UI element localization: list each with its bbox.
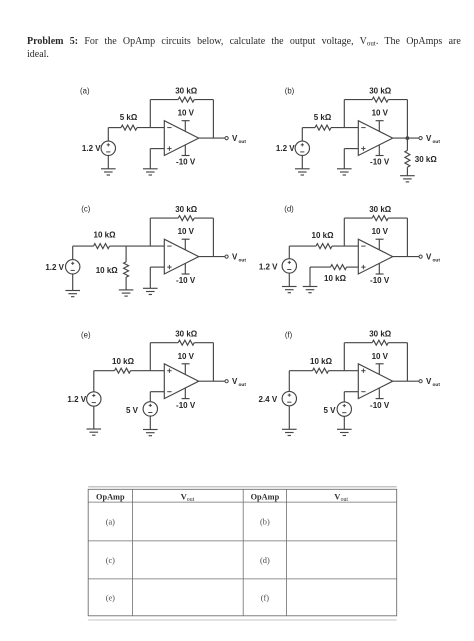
svg-text:1.2 V: 1.2 V [82,144,101,153]
svg-text:30 kΩ: 30 kΩ [175,86,198,95]
svg-text:-10 V: -10 V [370,276,390,285]
svg-text:5 V: 5 V [323,406,336,415]
svg-text:V: V [426,252,432,261]
svg-text:(b): (b) [260,518,270,527]
svg-text:5 kΩ: 5 kΩ [314,113,332,122]
svg-text:10 kΩ: 10 kΩ [324,274,347,283]
svg-text:-10 V: -10 V [370,401,390,410]
svg-text:10 V: 10 V [178,109,195,118]
svg-text:V: V [232,377,238,386]
svg-text:10 V: 10 V [178,227,195,236]
svg-text:(d): (d) [284,205,294,214]
svg-text:out: out [239,257,247,263]
svg-text:5 kΩ: 5 kΩ [120,113,138,122]
svg-text:10 V: 10 V [372,227,389,236]
svg-text:(f): (f) [261,594,270,603]
svg-text:(f): (f) [285,331,293,340]
svg-text:10 kΩ: 10 kΩ [310,357,333,366]
svg-text:-10 V: -10 V [176,158,196,167]
svg-text:(c): (c) [106,556,115,565]
svg-text:out: out [239,382,247,388]
svg-text:10 V: 10 V [178,352,195,361]
svg-text:V: V [232,134,238,143]
svg-text:OpAmp: OpAmp [251,492,280,501]
svg-text:out: out [341,497,349,503]
svg-text:out: out [433,257,441,263]
svg-text:30 kΩ: 30 kΩ [369,205,392,214]
svg-text:30 kΩ: 30 kΩ [415,155,438,164]
svg-text:out: out [239,139,247,145]
svg-text:2.4 V: 2.4 V [259,395,278,404]
svg-text:30 kΩ: 30 kΩ [369,86,392,95]
svg-text:10 V: 10 V [372,109,389,118]
svg-text:-10 V: -10 V [176,276,196,285]
svg-text:1.2 V: 1.2 V [45,263,64,272]
svg-text:30 kΩ: 30 kΩ [175,330,198,339]
svg-text:10 kΩ: 10 kΩ [96,266,119,275]
svg-text:V: V [232,252,238,261]
svg-text:30 kΩ: 30 kΩ [369,330,392,339]
svg-text:10 kΩ: 10 kΩ [312,231,335,240]
svg-text:10 V: 10 V [372,352,389,361]
svg-text:(c): (c) [81,205,90,214]
svg-text:(b): (b) [285,87,295,96]
svg-text:(d): (d) [260,556,270,565]
svg-text:1.2 V: 1.2 V [276,144,295,153]
svg-text:30 kΩ: 30 kΩ [175,205,198,214]
svg-text:1.2 V: 1.2 V [67,395,86,404]
svg-text:out: out [433,382,441,388]
svg-text:1.2 V: 1.2 V [259,263,278,272]
svg-text:OpAmp: OpAmp [96,492,125,501]
svg-text:10 kΩ: 10 kΩ [112,357,135,366]
svg-text:(e): (e) [106,594,115,603]
svg-text:V: V [426,134,432,143]
svg-text:10 kΩ: 10 kΩ [94,231,117,240]
svg-text:-10 V: -10 V [370,158,390,167]
svg-text:(a): (a) [106,518,115,527]
svg-text:(e): (e) [81,331,91,340]
svg-text:out: out [433,139,441,145]
svg-text:(a): (a) [80,87,90,96]
svg-text:out: out [187,497,195,503]
svg-text:V: V [426,377,432,386]
svg-text:5 V: 5 V [126,406,139,415]
svg-text:-10 V: -10 V [176,401,196,410]
